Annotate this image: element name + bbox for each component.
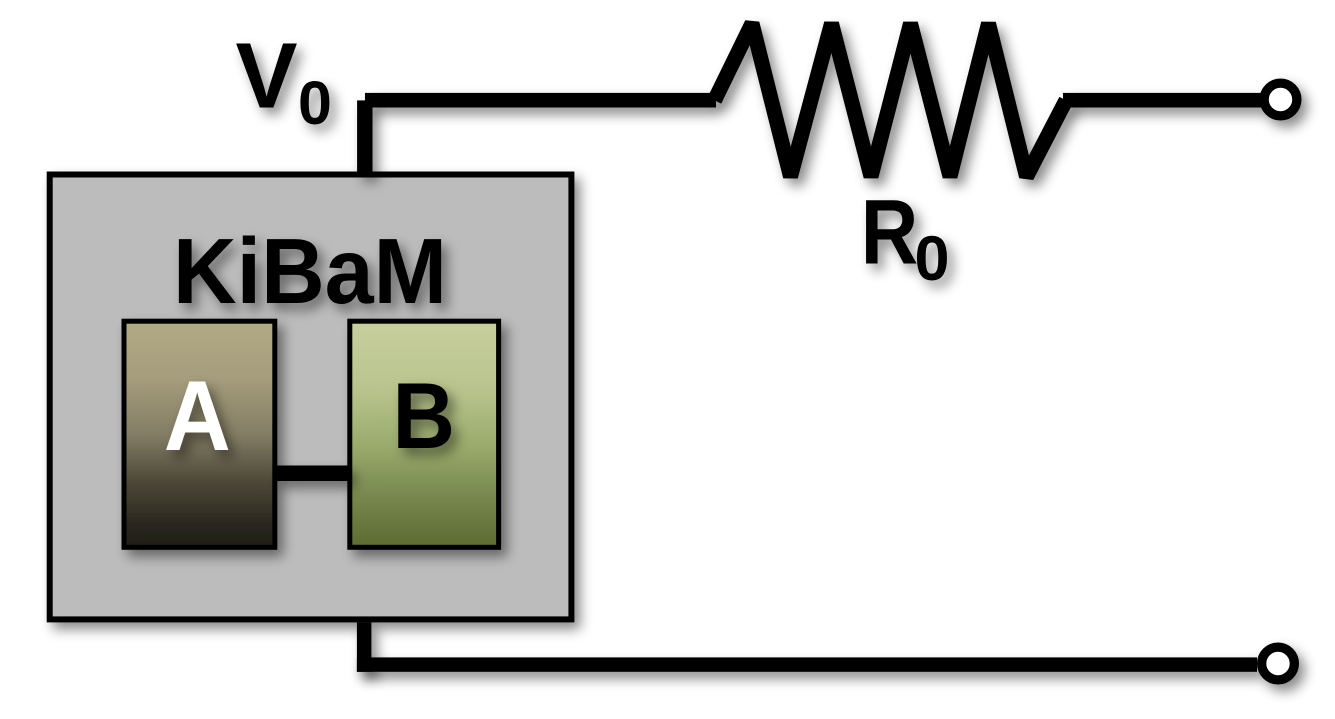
wire top horizontal (V0 node to resistor)	[365, 93, 716, 108]
svg-text:0: 0	[915, 224, 950, 294]
KiBaM battery box	[50, 175, 572, 620]
wire bottom vertical (box to bottom rail)	[357, 622, 372, 671]
terminal top right	[1264, 83, 1297, 116]
svg-text:V: V	[236, 24, 298, 128]
wire top vertical (V0 node to box)	[357, 100, 372, 175]
resistor R0 zigzag	[715, 24, 1067, 177]
svg-text:A: A	[164, 360, 231, 471]
well B	[350, 321, 499, 547]
svg-text:0: 0	[298, 69, 332, 137]
well A	[124, 321, 275, 547]
svg-text:B: B	[393, 363, 456, 468]
terminal bottom right	[1262, 647, 1295, 680]
wire top right (resistor to terminal)	[1063, 93, 1261, 108]
svg-text:R: R	[861, 181, 919, 283]
wire bottom horizontal (to bottom terminal)	[357, 657, 1257, 671]
svg-text:KiBaM: KiBaM	[173, 219, 447, 323]
pipe between wells	[275, 466, 349, 482]
